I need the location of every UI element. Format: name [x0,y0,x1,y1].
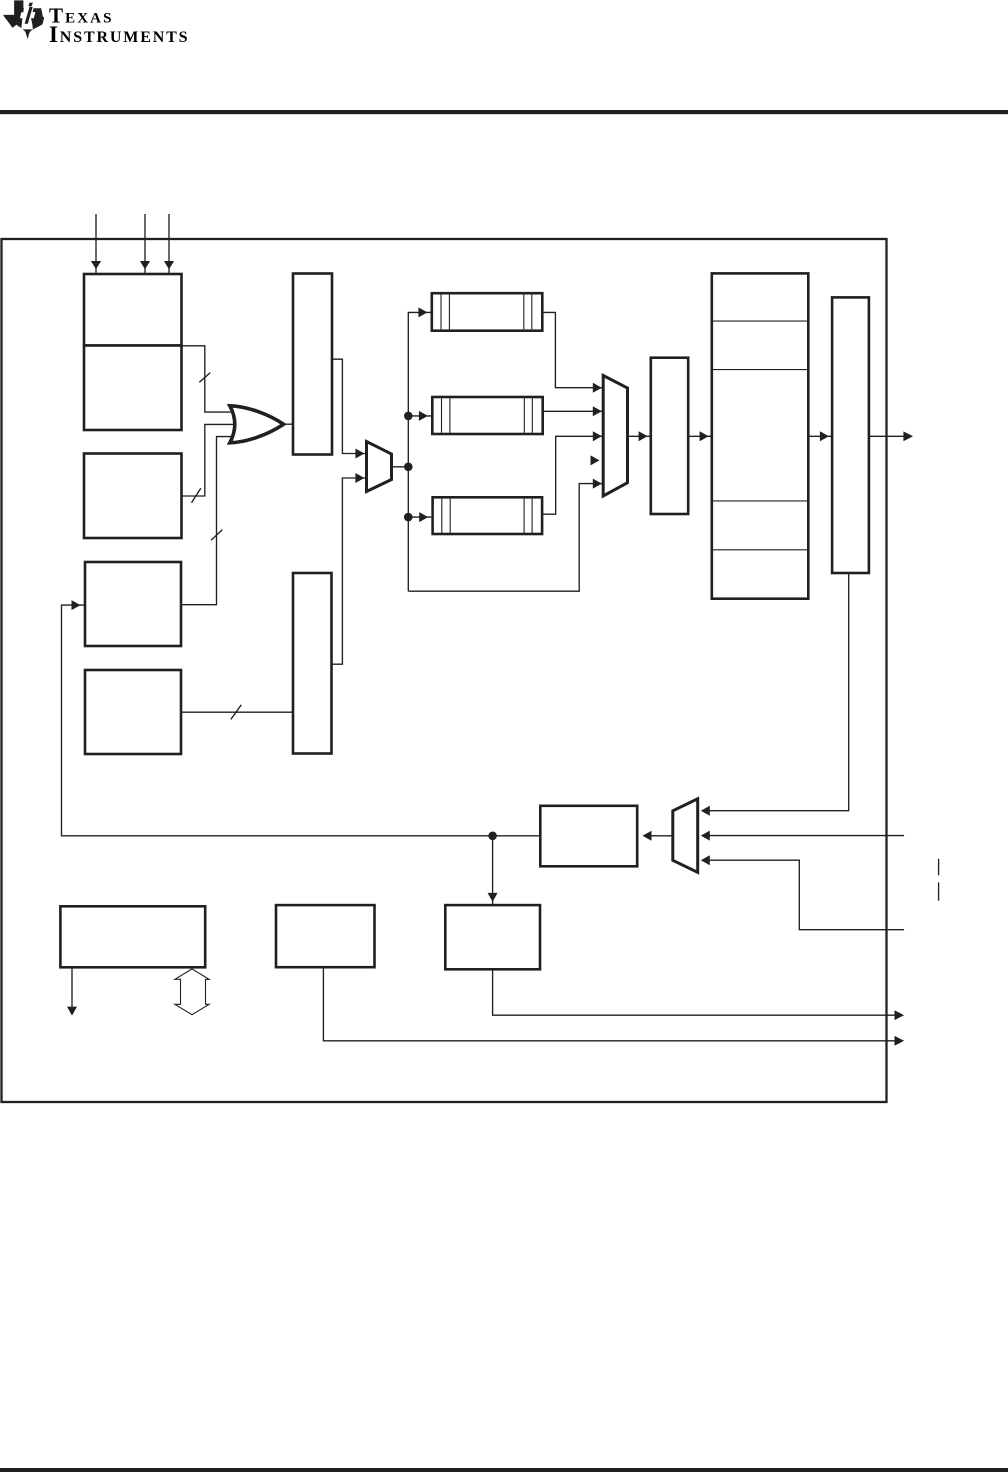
wire W14: mux M2 output to register B3 [628,435,650,437]
wire W6: B1 output to mux M1 input 1 [332,359,365,453]
node N3 (junction dot) and branch arrow to FIFO F3 [404,513,413,522]
mux M3 (3-input, points left) [673,799,698,873]
stub arrowhead mux M2 input 4 [591,455,600,465]
buffer B4 (tall thin) [832,297,869,573]
wire W24: U8 output down with arrowhead [71,967,73,1007]
tick mark T1 (right margin) [938,859,940,876]
block U2 (top register, lower half) [84,346,182,431]
bus slash on W3 [211,530,222,540]
svg-text:Instruments: Instruments [49,22,189,47]
bottom footer rule [0,1468,1008,1472]
bidirectional hollow arrow below U8 [175,969,209,1015]
wire W26: U10 output down and right leaving diagram [493,969,895,1015]
FIFO F3 [433,497,542,534]
tick mark T2 (right margin) [938,882,940,900]
block U4 [85,562,181,646]
block U8 (bottom left) [60,906,205,967]
wire W7: B2 output to mux M1 input 2 [332,478,366,664]
wire W8: mux M1 output to feed node [392,466,409,468]
wire W1: U2 output to OR gate input 1 [182,346,231,412]
block U6 (large sectioned block) [712,273,809,598]
wire W11: F1 output to mux M2 input 1 [542,312,602,387]
node N4 (junction dot on W22) [488,832,497,841]
block U9 (bottom middle) [276,905,375,967]
wire W22: U7 output left and up to U4 input [62,605,541,836]
wire W15: B3 output to block U6 [688,435,710,437]
input arrow wire 3 into block U1 [168,214,170,273]
block U10 (bottom right) [445,905,540,969]
wire W5: U5 output to register B2 [181,711,293,713]
wire W19: external line to mux M3 input 2 [702,835,904,837]
mux M1 (2-input) [367,442,392,492]
block U1 (top register, upper half) [84,274,182,346]
wire W16: U6 output to buffer B4 [808,435,831,437]
wire W2: U3 output to OR gate input 2 [182,424,237,496]
wire W3: U4 output to OR gate input 3 [181,437,233,605]
wire W13: F3 output to mux M2 input 3 [542,436,602,514]
input arrow wire 1 into block U1 [95,214,97,273]
node N2 (junction dot at mux output) [404,463,413,472]
wire W17: B4 output leaving the diagram to the right [869,435,905,437]
wire W25: U9 output down and right leaving diagram [323,967,895,1041]
wire W12: F2 output to mux M2 input 2 [543,410,602,412]
OR gate G1 [230,406,284,443]
mux M2 (5-input tall) [603,376,627,497]
block U3 [84,454,182,539]
wire W10: feed line bottom run to mux M2 input 5 [408,484,602,592]
bus slash on W1 [199,373,210,383]
FIFO F1 [432,293,543,331]
input arrow wire 2 into block U1 [144,214,146,273]
wire W4: OR gate output to register B1 [284,423,293,425]
bus slash on W5 [231,705,242,720]
node N1 (junction dot) and branch arrow to FIFO F2 [404,412,413,421]
wire W23: node N4 down into block U10 [492,836,494,904]
wire W9: feed line vertical with top branch to FIFO F1 [408,312,430,591]
FIFO F2 [432,397,542,434]
register B3 (shift register) [651,358,688,514]
block U7 (baud generator) [540,806,637,867]
register B2 (tall) [293,573,332,754]
top header rule [0,110,1008,114]
outer block-diagram border [2,239,887,1102]
wire W21: mux M3 output to block U7 [651,835,673,837]
block U5 [85,670,181,754]
wire W20: external line to mux M3 input 3 [702,860,904,930]
wire W18: B4 bottom down to mux M3 input 1 [702,573,849,811]
bus slash on W2 [192,488,201,503]
TI logo bug (Texas state with ti) [3,0,44,39]
register B1 (tall) [293,274,332,455]
